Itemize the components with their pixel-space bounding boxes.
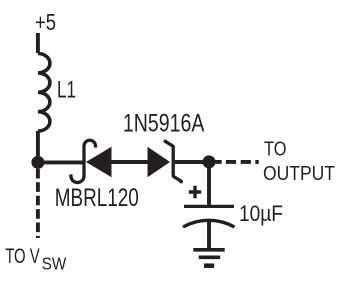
wire D2 to node B [175, 160, 209, 164]
wire node B down to capacitor C1 [207, 162, 211, 205]
dashed wire to output [214, 160, 259, 164]
svg-text:TO V: TO V [5, 245, 40, 268]
svg-text:TO: TO [264, 138, 287, 161]
capacitor C1 plus sign [189, 186, 201, 198]
node A junction dot [31, 156, 44, 169]
svg-text:+5: +5 [35, 9, 56, 35]
wire from inductor to node A [36, 131, 40, 162]
svg-text:MBRL120: MBRL120 [55, 185, 139, 212]
ground symbol [193, 248, 224, 252]
inductor L1 [38, 54, 50, 132]
dashed wire node A to Vsw [36, 169, 40, 238]
wire capacitor to ground [207, 222, 211, 250]
svg-text:1N5916A: 1N5916A [123, 110, 205, 137]
svg-text:10µF: 10µF [239, 201, 283, 226]
capacitor C1 curved bottom plate [183, 220, 235, 227]
wire from +5 to inductor L1 [36, 33, 40, 53]
diode D2 zener cathode bar [172, 146, 175, 177]
diode D2 zener bottom tick [173, 176, 181, 183]
diode D2 zener top tick [165, 140, 173, 147]
svg-text:L1: L1 [57, 76, 76, 103]
diode D2 1N5916A triangle (points right) [148, 147, 171, 177]
node B junction dot [203, 155, 216, 168]
capacitor C1 top plate [184, 205, 234, 208]
wire between D1 and D2 [112, 160, 148, 164]
diode D1 MBRL120 triangle (points left) [86, 147, 112, 177]
diode D1 MBRL120 schottky cathode bar [71, 140, 96, 182]
wire node A to diode D1 cathode [38, 160, 84, 164]
svg-text:OUTPUT: OUTPUT [263, 162, 335, 185]
svg-text:SW: SW [42, 253, 67, 273]
